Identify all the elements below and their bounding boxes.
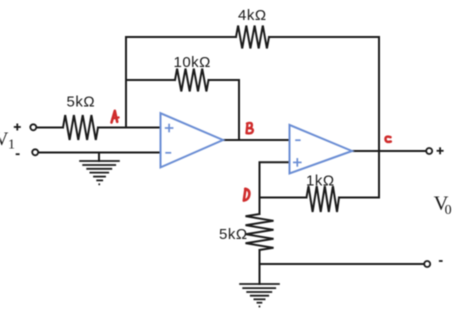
svg-text:10kΩ: 10kΩ (174, 54, 211, 71)
svg-text:0: 0 (445, 203, 452, 218)
svg-text:1: 1 (8, 138, 15, 153)
svg-text:5kΩ: 5kΩ (219, 226, 248, 243)
svg-text:1kΩ: 1kΩ (306, 173, 335, 190)
svg-text:5kΩ: 5kΩ (67, 94, 96, 111)
svg-text:4kΩ: 4kΩ (238, 7, 267, 24)
